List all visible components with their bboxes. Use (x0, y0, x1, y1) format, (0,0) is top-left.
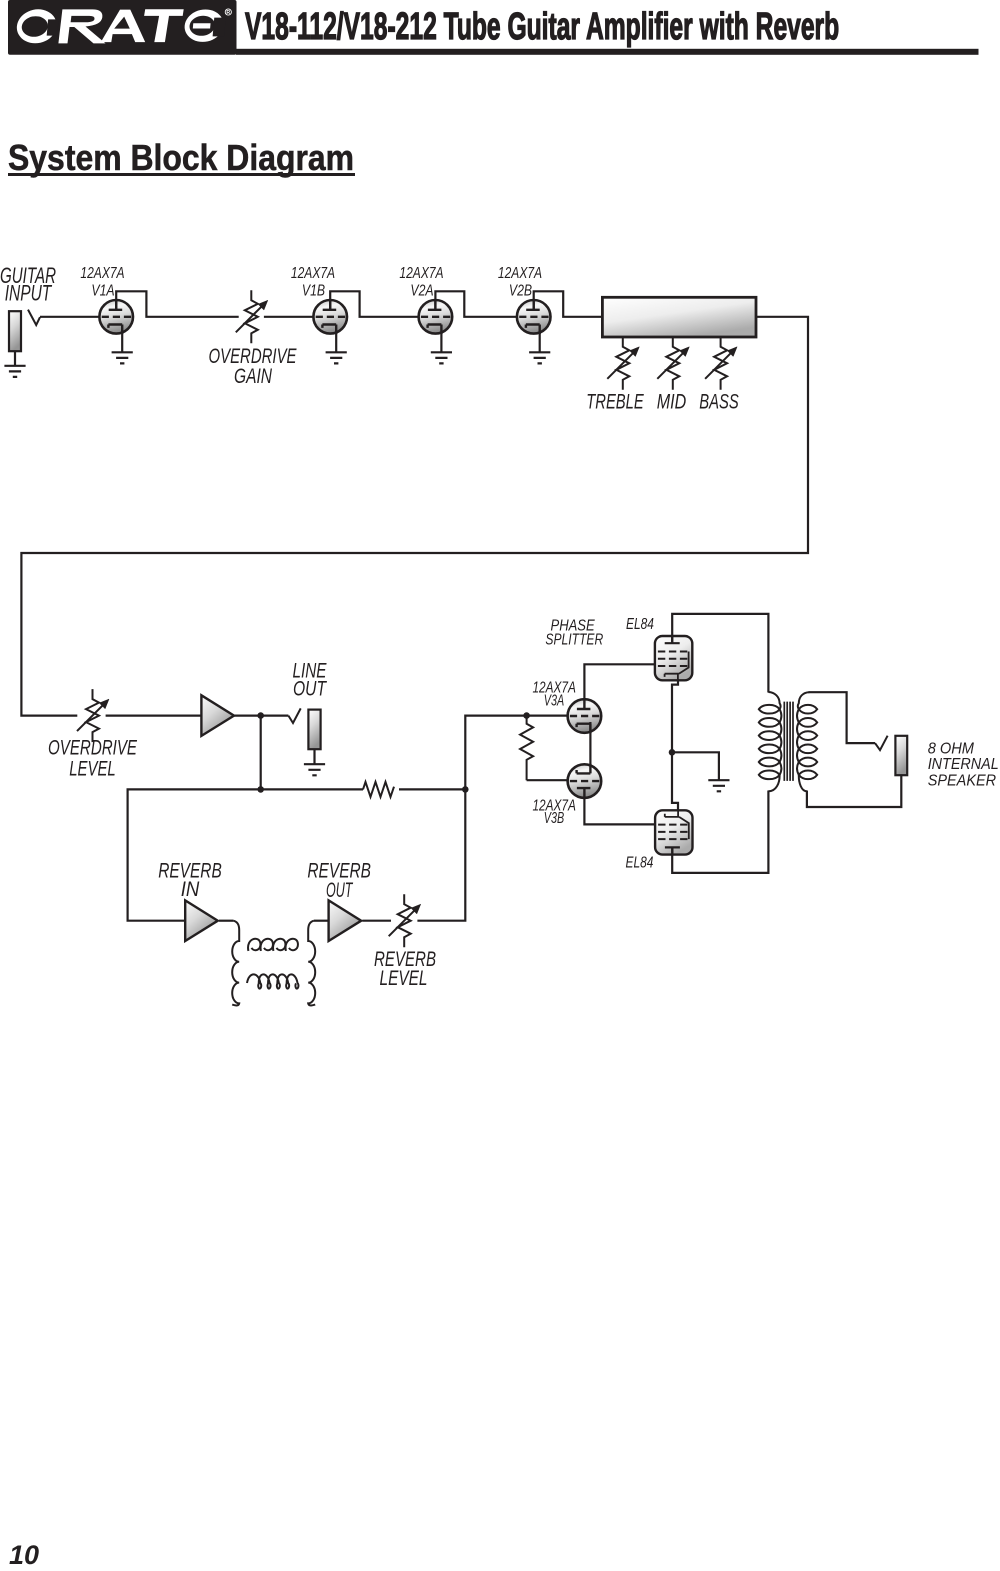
svg-text:TREBLE: TREBLE (586, 391, 644, 414)
registered mark (225, 9, 231, 15)
svg-text:INTERNAL: INTERNAL (928, 756, 999, 773)
label 8 OHM INTERNAL SPEAKER (928, 740, 999, 789)
svg-text:OUT: OUT (293, 677, 328, 700)
page number 10 (9, 1540, 39, 1571)
svg-text:V3B: V3B (544, 810, 565, 827)
wire node E to lower EL84 cathode (672, 752, 678, 810)
jack tip switch contact (28, 310, 40, 325)
label 12AX7A V1B (291, 265, 335, 300)
wire V1A plate to overdrive gain pot (116, 291, 239, 317)
svg-text:SPEAKER: SPEAKER (928, 772, 997, 789)
reverb tank output spring lead (308, 921, 315, 1006)
line out tip switch contact (288, 708, 300, 723)
node D junction (523, 712, 530, 719)
CRATE letter A (101, 10, 145, 43)
reverb tank coil upper (248, 939, 298, 951)
op-amp U5 reverb out recovery (329, 900, 362, 941)
wire V3A cathode to V3B (589, 722, 591, 775)
transformer T1 secondary winding (797, 692, 817, 791)
op-amp U1 master amp (201, 695, 234, 736)
wire V3B plate to lower EL84 (584, 798, 655, 824)
CRATE letter C (15, 9, 58, 43)
wire lower EL84 plate to output transformer (672, 791, 768, 873)
tube V1B (313, 300, 347, 334)
wire resistor R2 to V3B grid (527, 779, 568, 781)
svg-text:IN: IN (181, 878, 200, 901)
label LINE OUT (293, 659, 328, 700)
wire V2A plate to V2B grid (435, 291, 517, 317)
wire pot to V1B grid (264, 316, 314, 318)
ground G2 (112, 352, 133, 363)
label 12AX7A V2A (399, 265, 443, 300)
node A junction (257, 712, 264, 719)
label OVERDRIVE LEVEL (48, 737, 138, 781)
label REVERB IN (158, 860, 222, 901)
CRATE E middle bar (193, 23, 211, 28)
svg-text:MID: MID (657, 391, 687, 414)
potentiometer REVERB LEVEL (389, 894, 421, 947)
transformer T1 primary winding (759, 692, 782, 791)
wire tank to reverb out amp (314, 920, 329, 922)
wire node D to V3A grid (527, 714, 568, 716)
tube V3B (568, 764, 602, 798)
label REVERB LEVEL (374, 948, 436, 990)
wire resistor to node C (399, 788, 465, 790)
wire node B to mix resistor (261, 788, 363, 790)
wire amp output to line out (234, 714, 288, 716)
tube V2B (517, 300, 551, 334)
node C junction (462, 786, 469, 793)
op-amp U4 reverb in driver (185, 900, 218, 941)
svg-text:12AX7A: 12AX7A (291, 265, 335, 282)
label OVERDRIVE GAIN (209, 345, 298, 388)
svg-text:12AX7A: 12AX7A (80, 265, 124, 282)
svg-text:V2B: V2B (509, 283, 532, 300)
svg-text:OVERDRIVE: OVERDRIVE (48, 737, 138, 760)
header rule bar (236, 49, 979, 55)
svg-text:LEVEL: LEVEL (380, 967, 428, 990)
svg-text:SPLITTER: SPLITTER (545, 632, 603, 649)
tone stack block (602, 297, 756, 337)
wire upper EL84 cathode down (672, 679, 678, 752)
tube U3 EL84 lower (655, 810, 692, 854)
wire overdrive level pot to amplifier (106, 714, 202, 716)
wire node E to ground (672, 752, 719, 780)
resistor R1 mix (363, 782, 394, 797)
wire V3A plate to upper EL84 (584, 664, 655, 699)
node E junction (669, 749, 676, 756)
potentiometer BASS (705, 337, 737, 390)
svg-text:EL84: EL84 (626, 855, 654, 872)
svg-text:12AX7A: 12AX7A (399, 265, 443, 282)
ground G7 (708, 780, 729, 791)
wire line out jack to ground (313, 749, 315, 764)
svg-text:EL84: EL84 (626, 616, 654, 633)
resistor R2 phase splitter bias (520, 716, 533, 781)
node B junction (257, 786, 264, 793)
wire reverb level pot to node C (417, 789, 465, 920)
wire tone block output feedback loop to overdrive level (21, 317, 808, 716)
tube V3A (568, 699, 602, 733)
jack J3 speaker (895, 736, 907, 775)
wire speaker return to secondary bottom (807, 775, 901, 807)
logo box (8, 0, 237, 55)
wire V2B cathode to ground (539, 332, 541, 352)
CRATE letter E (183, 10, 225, 42)
ground G1 (4, 366, 25, 377)
wire node C up to node D phase splitter input (465, 716, 526, 790)
wire secondary top to speaker (809, 692, 876, 743)
wire input to V1A grid (40, 316, 99, 318)
label 12AX7A V3B (532, 798, 576, 827)
label PHASE SPLITTER (545, 617, 603, 648)
reverb tank input spring lead (232, 921, 239, 1006)
svg-text:INPUT: INPUT (5, 281, 53, 306)
wire V1A cathode to ground (121, 332, 123, 352)
potentiometer OVERDRIVE LEVEL (77, 689, 109, 742)
tube U2 EL84 upper (655, 636, 692, 680)
svg-text:8 OHM: 8 OHM (928, 740, 975, 757)
labels TREBLE MID BASS (586, 391, 739, 414)
potentiometer TREBLE (607, 337, 639, 390)
svg-text:OUT: OUT (326, 879, 354, 902)
wire V2B plate to tone block (534, 291, 603, 317)
ground G6 (304, 764, 325, 775)
wire V1B cathode to ground (335, 332, 337, 352)
label GUITAR INPUT (0, 263, 56, 306)
svg-text:V1B: V1B (302, 283, 325, 300)
wire upper EL84 plate to output transformer (672, 614, 768, 693)
label 12AX7A V3A (532, 680, 576, 710)
jack J1 guitar input (9, 311, 21, 351)
tube V2A (419, 300, 453, 334)
potentiometer MID (657, 337, 689, 390)
CRATE letter T (144, 9, 184, 42)
wire reverb in amp to tank (219, 920, 233, 922)
section heading (8, 137, 354, 179)
reverb tank coil lower (247, 974, 298, 988)
tube V1A (99, 300, 133, 334)
label 12AX7A V2B (498, 265, 542, 300)
label 12AX7A V1A (80, 265, 124, 300)
header title text (245, 6, 839, 49)
label REVERB OUT (307, 860, 371, 902)
ground G3 (326, 352, 347, 363)
wire node A down to node B (260, 716, 262, 790)
jack J2 line out (308, 710, 320, 750)
svg-text:V3A: V3A (544, 692, 564, 709)
potentiometer OVERDRIVE GAIN (236, 290, 268, 343)
wire jack to ground (14, 351, 16, 365)
heading underline (8, 173, 355, 176)
ground G5 (529, 352, 550, 363)
svg-text:BASS: BASS (699, 391, 739, 414)
svg-text:V2A: V2A (410, 283, 433, 300)
wire reverb out amp to reverb level pot (362, 920, 391, 922)
speaker tip switch contact (875, 736, 888, 750)
svg-text:LEVEL: LEVEL (69, 758, 116, 781)
wire V1B plate to V2A grid (330, 291, 418, 317)
svg-text:GAIN: GAIN (234, 365, 273, 388)
svg-text:V1A: V1A (91, 283, 114, 300)
svg-text:12AX7A: 12AX7A (498, 265, 542, 282)
wire node B to reverb in amp (128, 789, 261, 920)
CRATE letter R (58, 9, 105, 43)
wire V2A cathode to ground (440, 332, 442, 352)
ground G4 (431, 352, 452, 363)
header logo black box with CRATE logo (0, 0, 1000, 60)
transformer T1 core (784, 702, 793, 781)
